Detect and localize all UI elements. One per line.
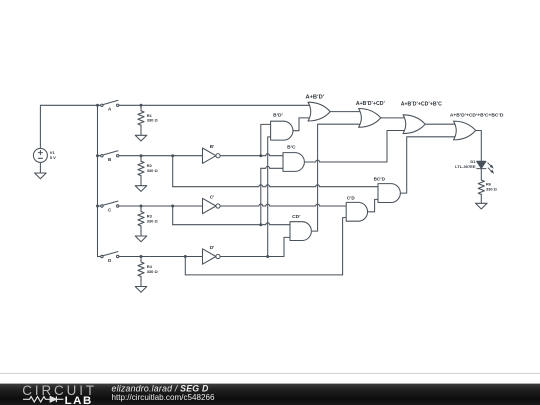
OR gate A+B'D' [308,102,330,121]
svg-text:elizandro.larad / SEG D: elizandro.larad / SEG D [112,383,209,393]
ground below V1 [35,173,47,179]
svg-text:LTL-307EE: LTL-307EE [455,164,476,169]
resistor R4 [140,257,142,263]
ground below R3 [135,236,147,242]
wire BC'D output to OR4 [400,137,457,193]
svg-text:C’: C’ [210,194,215,199]
svg-text:330 Ω: 330 Ω [486,186,498,191]
wire node C' output line [220,204,350,206]
svg-text:C: C [108,207,112,212]
resistor R2 [140,156,142,162]
wire node C feed to CD' [173,223,294,225]
OR gate A+B'D'+CD'+B'C [403,115,425,134]
wire OR4 output to LED column [476,131,482,162]
wire node D feed across [185,274,342,276]
junction bus/B [96,154,99,157]
ground below R1 [135,135,147,141]
resistor R6 [478,180,484,194]
wire B'C rise to OR3 [387,131,407,163]
svg-text:A+B’D’+CD’+B’C: A+B’D’+CD’+B’C [401,101,442,107]
svg-text:http://circuitlab.com/c548266: http://circuitlab.com/c548266 [112,393,216,402]
wire C rise to B'C bottom input [260,168,262,224]
wire switch B to resistor node [119,155,141,157]
AND gate B'C [283,153,304,172]
svg-text:C’D: C’D [347,195,356,200]
wire switch D to resistor node [119,256,141,258]
svg-text:A+B’D’: A+B’D’ [305,94,324,100]
junction D' branch [266,255,269,258]
wire node C tap down [172,206,174,225]
junction bus/top [96,104,99,107]
wire B'D' output to OR1 [293,118,312,131]
wire node B tap down [172,156,174,187]
wire node D' output line [220,256,284,258]
svg-text:B: B [108,157,112,162]
resistor R3 [140,206,142,212]
AND gate B'D' [271,121,293,140]
svg-text:LAB: LAB [65,395,93,405]
LED arrows [488,163,491,166]
ground below R6 [476,203,488,209]
svg-text:A+B’D’+CD’+B’C+BC’D: A+B’D’+CD’+B’C+BC’D [450,112,504,118]
wire C'D output to BC'D [369,199,383,211]
AND gate CD' [290,222,311,241]
AND gate C'D [346,202,367,221]
wire R6 to ground [480,194,482,203]
svg-text:B’: B’ [210,144,215,149]
wire D' step up to CD' input [284,237,294,256]
wire CD' output to OR2 [312,124,362,231]
wire into B'C bottom input [261,166,287,168]
wire bus to switch B [98,155,101,157]
svg-text:330 Ω: 330 Ω [147,269,159,274]
junction bus/C [96,205,99,208]
wire row D to inverter [141,256,203,258]
logo wire-resistor-diode glyph [23,396,63,402]
wire node D tap down [184,257,186,275]
junction R1 node [140,104,143,107]
svg-text:B’D’: B’D’ [273,113,283,119]
AND gate BC'D [378,184,400,203]
wire switch C to resistor node [119,205,141,207]
junction C branch [259,223,262,226]
wire V1 top lead to bus [40,105,97,148]
wire V1 bottom lead to ground [39,162,41,173]
wire row A to OR1 input [141,104,312,106]
wire node B' output line [220,154,287,156]
wire LED to R6 [480,169,482,180]
switch C [101,201,119,207]
wire D' rise to B'D' bottom input [268,137,275,257]
voltage source V1 [33,148,47,162]
junction R4 node [140,255,143,258]
svg-text:BC’D: BC’D [374,176,386,181]
wire B'C output across [304,160,387,162]
junction B tap [171,154,174,157]
inverter D' [203,249,216,264]
svg-text:CD’: CD’ [292,214,301,220]
svg-text:330 Ω: 330 Ω [147,168,159,173]
svg-text:D: D [108,258,112,263]
wire OR2 output to OR3 [381,117,407,119]
wire bus to switch D [98,256,101,258]
wire bus to switch A [98,104,101,106]
OR gate A+B'D'+CD' [359,109,381,128]
ground below R4 [135,287,147,293]
resistor R1 [140,105,142,111]
wire row B to inverter [141,155,203,157]
inverter B' [203,148,216,163]
wire B' rise to B'D' top input [261,124,275,155]
svg-text:B’C: B’C [287,144,296,150]
svg-text:D’: D’ [210,245,215,250]
switch A [101,100,119,106]
inverter C' [203,198,216,213]
switch B [101,151,119,157]
ground below R2 [135,186,147,192]
wire OR3 output to OR4 [425,123,457,125]
OR gate A+B'D'+CD'+B'C+BC'D [454,121,476,140]
wire node D rise to C'D input [343,218,351,275]
svg-text:330 Ω: 330 Ω [147,218,159,223]
junction R2 node [140,154,143,157]
switch D [101,252,119,258]
svg-text:330 Ω: 330 Ω [147,118,159,123]
wire switch A to resistor node [119,104,141,106]
wire bus to switch C [98,205,101,207]
junction D tap [184,255,187,258]
junction C tap [171,205,174,208]
wire row C to inverter [141,205,203,207]
junction B' branch [259,154,262,157]
wire OR1 output to OR2 [330,111,362,113]
svg-text:A: A [108,107,112,112]
wire node B feed to BC'D [173,185,382,187]
wire vertical bus [97,105,99,256]
svg-text:A+B’D’+CD’: A+B’D’+CD’ [356,101,386,107]
junction R3 node [140,205,143,208]
LED D1 [477,161,495,174]
svg-text:5 V: 5 V [50,155,56,160]
canvas bottom border line [0,372,540,375]
